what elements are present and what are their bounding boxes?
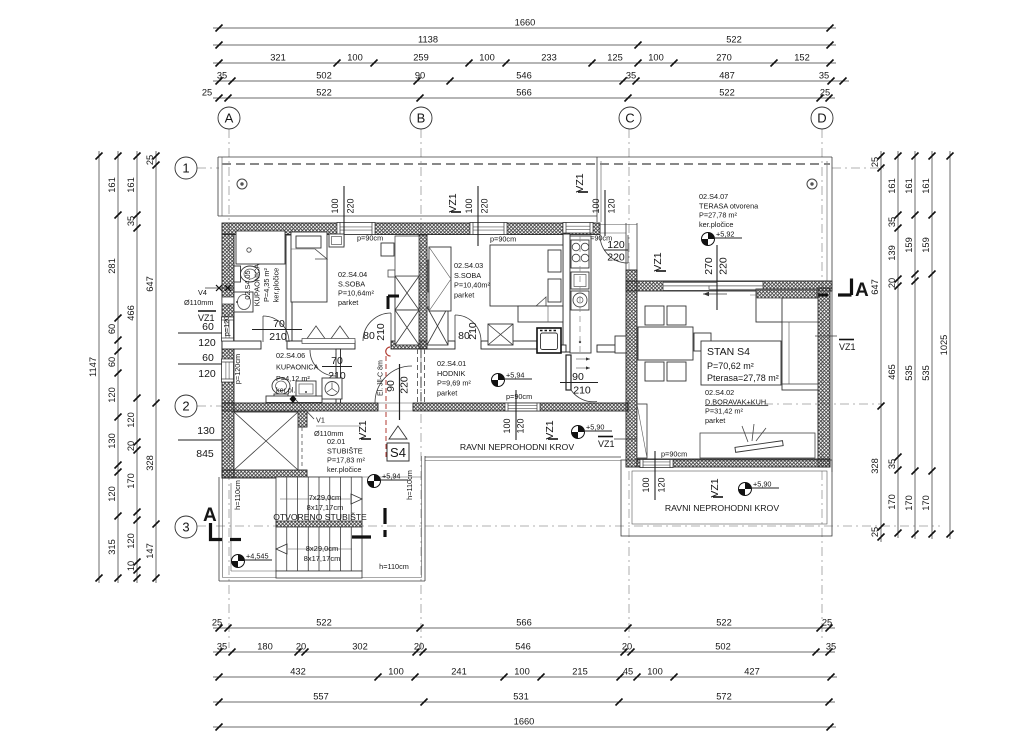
window dimension callout living south window <box>641 451 667 500</box>
svg-text:522: 522 <box>716 618 732 628</box>
bed bedroom04 <box>291 232 327 302</box>
dimension chain top row 1138/522 <box>213 35 836 49</box>
svg-text:125: 125 <box>607 53 623 63</box>
dimension chain bottom row total 1660 <box>213 717 836 731</box>
label V4 diameter west wall <box>184 285 234 307</box>
partition hodnik north b <box>481 341 540 349</box>
door 80/210 bedroom03 <box>455 315 481 342</box>
svg-text:100: 100 <box>641 477 651 492</box>
dimension chain right col 2 <box>887 151 902 538</box>
svg-text:STAN S4: STAN S4 <box>707 346 750 358</box>
dimension chain bottom row 557/531/572 <box>213 692 835 706</box>
svg-text:210: 210 <box>573 385 591 397</box>
svg-text:161: 161 <box>921 178 931 194</box>
window 100/220 bedroom03 <box>470 223 507 235</box>
partition hodnik north a <box>427 341 455 349</box>
grid bubble D <box>811 107 833 129</box>
svg-text:02.S4.02: 02.S4.02 <box>705 388 734 397</box>
svg-text:02.S4.05: 02.S4.05 <box>243 270 252 299</box>
svg-text:35: 35 <box>826 642 836 652</box>
svg-text:522: 522 <box>719 88 735 98</box>
label VZ1 roof left-2 with leader <box>598 437 637 450</box>
svg-text:parket: parket <box>338 298 358 307</box>
svg-text:02.S4.01: 02.S4.01 <box>437 359 466 368</box>
wall terrace south / living north <box>626 281 832 291</box>
sofa L-shaped <box>756 289 818 390</box>
svg-text:p=90cm: p=90cm <box>357 234 383 243</box>
svg-text:557: 557 <box>313 692 329 702</box>
svg-text:120: 120 <box>607 198 617 213</box>
wardrobe marks bedroom04 <box>302 326 355 344</box>
svg-text:Pterasa=27,78 m²: Pterasa=27,78 m² <box>707 373 779 383</box>
wall elevator shaft east jamb <box>298 411 307 427</box>
shaft elevator shaft <box>234 412 298 470</box>
svg-text:25: 25 <box>820 88 830 98</box>
STAN S4 info box <box>701 341 781 385</box>
svg-text:KUPAONICA: KUPAONICA <box>253 264 262 307</box>
svg-text:RAVNI NEPROHODNI KROV: RAVNI NEPROHODNI KROV <box>665 503 779 513</box>
svg-text:566: 566 <box>516 618 532 628</box>
svg-text:70: 70 <box>331 355 343 367</box>
svg-text:VZ1: VZ1 <box>598 439 615 449</box>
S4 stair id box with triangle <box>387 426 409 461</box>
svg-text:90: 90 <box>572 371 584 383</box>
dimension chain bottom row 25/522/566/522/25 <box>212 618 835 632</box>
wardrobe bedroom03 <box>429 247 451 311</box>
svg-text:465: 465 <box>887 364 897 380</box>
label VZ1 kitchen window (rotated) <box>574 173 588 192</box>
svg-text:Ø110mm: Ø110mm <box>184 298 213 307</box>
svg-text:+4,545: +4,545 <box>246 552 269 561</box>
svg-text:+5,92: +5,92 <box>716 230 734 239</box>
dimension chain left col 3 <box>126 151 141 583</box>
svg-text:100: 100 <box>330 198 340 213</box>
shelf bedroom04 <box>381 243 394 256</box>
svg-text:25: 25 <box>822 618 832 628</box>
svg-text:02.S4.07: 02.S4.07 <box>699 192 728 201</box>
room label 02.01 STUBISTE <box>327 437 365 474</box>
wall corner post at C <box>626 270 637 291</box>
svg-text:302: 302 <box>352 642 368 652</box>
svg-text:P=10,64m²: P=10,64m² <box>338 289 374 298</box>
svg-text:90: 90 <box>415 71 425 81</box>
svg-text:VZ1: VZ1 <box>839 342 856 352</box>
svg-text:120: 120 <box>198 368 216 380</box>
terrace outline top strip <box>218 157 832 216</box>
svg-text:1660: 1660 <box>515 18 536 28</box>
wall exterior east (living room) <box>818 288 830 467</box>
dining chairs <box>645 306 711 381</box>
svg-text:100: 100 <box>388 667 404 677</box>
svg-text:35: 35 <box>217 71 227 81</box>
svg-text:233: 233 <box>541 53 557 63</box>
grid axis A dashed line <box>228 129 230 648</box>
label V1 diameter <box>296 400 360 438</box>
svg-text:8x29,0cm: 8x29,0cm <box>306 544 339 553</box>
svg-text:210: 210 <box>467 322 479 340</box>
svg-text:P=17,83 m²: P=17,83 m² <box>327 456 365 465</box>
svg-text:STUBIŠTE: STUBIŠTE <box>327 446 363 455</box>
svg-text:8x17,17cm: 8x17,17cm <box>304 554 341 563</box>
washing machine bathroom06 <box>322 378 342 399</box>
svg-text:3: 3 <box>182 520 189 535</box>
svg-text:A: A <box>855 280 869 301</box>
svg-text:180: 180 <box>257 642 273 652</box>
svg-text:572: 572 <box>716 692 732 702</box>
shoe cabinet hodnik <box>615 336 626 353</box>
partition kitchen south a <box>540 345 566 352</box>
elevation marker +5,90 roof left <box>572 423 613 439</box>
svg-text:ker.pl.: ker.pl. <box>276 386 295 395</box>
shaft vent shaft 4 <box>488 324 513 345</box>
door 80/210 bedroom04 <box>363 313 391 342</box>
open staircase boundary <box>219 456 425 581</box>
svg-text:281: 281 <box>107 258 117 274</box>
svg-text:159: 159 <box>921 237 931 253</box>
dimension chain right col 1 <box>870 151 885 542</box>
svg-text:270: 270 <box>703 257 715 275</box>
grid axis 2 dashed line right <box>745 403 884 405</box>
dimension chain right col 3 <box>904 151 919 539</box>
svg-text:El. Jll-C 8m: El. Jll-C 8m <box>378 360 385 396</box>
svg-text:147: 147 <box>145 543 155 559</box>
grid axis 1 dashed line <box>197 167 219 169</box>
room label 02.S4.06 KUPAONICA <box>276 351 319 395</box>
svg-text:35: 35 <box>887 217 897 227</box>
shaft vent shaft 2 <box>395 310 419 345</box>
nightstand bedroom04 <box>329 234 344 247</box>
wall hodnik south <box>413 403 628 411</box>
vanity ledge bathroom06 <box>266 396 322 403</box>
sliding terrace window 270/220 <box>663 282 763 297</box>
svg-text:V1: V1 <box>316 416 325 425</box>
svg-text:1660: 1660 <box>514 717 535 727</box>
elevator door dashed <box>301 427 303 466</box>
terrace drain symbol left <box>237 179 247 189</box>
room label 02.S4.01 HODNIK <box>437 359 471 397</box>
closet niche beside shaft <box>395 236 419 276</box>
svg-text:1: 1 <box>182 161 189 176</box>
terrace edge insulation dashed band <box>222 163 830 165</box>
svg-text:parket: parket <box>437 388 457 397</box>
toilet bathroom05 <box>234 266 260 282</box>
grid bubble 1 <box>175 157 197 179</box>
svg-text:VZ1: VZ1 <box>447 193 459 212</box>
svg-text:522: 522 <box>316 88 332 98</box>
wall exterior north (A-C) <box>222 223 600 235</box>
label VZ1 east with leader <box>815 336 856 352</box>
grid axis 2 dashed line left <box>197 405 222 407</box>
section jog thick bracket in bedroom wall <box>388 296 399 309</box>
svg-text:161: 161 <box>904 178 914 194</box>
open window leaf at living west wall <box>637 404 647 458</box>
partition kitchen south b <box>597 345 626 352</box>
svg-text:487: 487 <box>719 71 735 81</box>
svg-text:466: 466 <box>126 305 136 321</box>
svg-text:VZ1: VZ1 <box>709 478 721 497</box>
svg-text:100: 100 <box>502 418 512 433</box>
svg-text:1025: 1025 <box>939 335 949 356</box>
svg-text:270: 270 <box>716 53 732 63</box>
shaft vent shaft 1 <box>395 276 419 310</box>
svg-text:120: 120 <box>126 412 136 428</box>
kitchen counter with hob, oven and sink <box>570 236 591 353</box>
svg-text:P=4,12 m²: P=4,12 m² <box>276 374 310 383</box>
svg-text:170: 170 <box>904 495 914 511</box>
svg-text:VZ1: VZ1 <box>574 173 586 192</box>
svg-text:P=27,78 m²: P=27,78 m² <box>699 211 737 220</box>
svg-text:P=4,35 m²: P=4,35 m² <box>262 268 271 302</box>
section mark A right <box>750 279 869 302</box>
svg-text:535: 535 <box>921 365 931 381</box>
shaft vent shaft 3 <box>427 307 448 345</box>
svg-text:210: 210 <box>375 323 387 341</box>
partition bath05/06 south b <box>287 341 355 349</box>
dimension chain top row 35/502/90/546/35/487/35 <box>213 71 849 85</box>
svg-text:45: 45 <box>623 667 633 677</box>
svg-text:1138: 1138 <box>418 35 438 45</box>
window 60/120 bathroom05 <box>222 317 234 341</box>
west wall callouts 130/845 <box>178 425 222 460</box>
svg-text:35: 35 <box>626 71 636 81</box>
room label 02.S4.02 D.BORAVAK+KUH <box>705 388 768 425</box>
svg-text:522: 522 <box>726 35 742 45</box>
svg-text:Ø110mm: Ø110mm <box>314 429 343 438</box>
dimension chain right col 5 total 1025 <box>939 151 954 539</box>
red electrical riser line El.Jll-C 8m <box>378 347 391 458</box>
svg-text:p=90cm: p=90cm <box>506 392 532 401</box>
svg-text:220: 220 <box>718 257 730 275</box>
svg-text:161: 161 <box>887 178 897 194</box>
wall living room west <box>626 291 637 467</box>
svg-text:159: 159 <box>904 237 914 253</box>
svg-text:502: 502 <box>316 71 332 81</box>
grid axis B dashed line <box>420 129 422 648</box>
dining table <box>638 327 693 360</box>
label VZ1 terrace (rotated) <box>652 252 666 271</box>
svg-text:P=9,69 m²: P=9,69 m² <box>437 379 471 388</box>
svg-text:315: 315 <box>107 539 117 555</box>
svg-text:502: 502 <box>715 642 731 652</box>
svg-text:h=110cm: h=110cm <box>233 480 242 510</box>
svg-text:D: D <box>817 111 826 126</box>
grid bubble B <box>410 107 432 129</box>
svg-text:60: 60 <box>202 352 214 364</box>
svg-text:10: 10 <box>126 561 136 571</box>
svg-text:25: 25 <box>212 618 222 628</box>
svg-text:522: 522 <box>316 618 332 628</box>
wall exterior west at elevator <box>222 403 234 478</box>
wall elevator shaft south <box>222 470 307 478</box>
svg-text:60: 60 <box>107 357 117 367</box>
svg-text:647: 647 <box>145 276 155 292</box>
grid axis 3 / section trace dash-dot line <box>197 525 940 527</box>
svg-text:p=90cm: p=90cm <box>661 450 687 459</box>
grid bubble 3 <box>175 516 197 538</box>
svg-text:S4: S4 <box>390 445 406 460</box>
V4 vent sleeve in west wall <box>222 297 234 304</box>
svg-text:120: 120 <box>607 239 625 251</box>
svg-text:S.SOBA: S.SOBA <box>338 279 365 288</box>
svg-text:120: 120 <box>657 477 667 492</box>
svg-text:210: 210 <box>269 331 287 343</box>
grid bubble C <box>619 107 641 129</box>
window dimension callout bedroom03 window <box>464 186 490 246</box>
svg-text:566: 566 <box>516 88 532 98</box>
label VZ1 roof left (rotated) <box>544 420 558 439</box>
svg-text:130: 130 <box>197 425 215 437</box>
svg-text:p=90cm: p=90cm <box>490 235 516 244</box>
washing machine niche <box>537 328 561 353</box>
svg-text:RAVNI NEPROHODNI KROV: RAVNI NEPROHODNI KROV <box>460 442 574 452</box>
dimension chain left col 4 <box>145 151 160 583</box>
entry door 90/220 <box>375 364 412 420</box>
svg-text:+5,90: +5,90 <box>753 480 771 489</box>
room label 02.S4.07 TERASA <box>699 192 759 229</box>
svg-text:+5,94: +5,94 <box>506 371 524 380</box>
partition bath05 south a <box>222 341 261 349</box>
svg-text:130: 130 <box>107 433 117 449</box>
room label 02.S4.04 S.SOBA <box>338 270 374 307</box>
label VZ1 west wall <box>198 311 216 323</box>
entry threshold lines <box>378 403 413 411</box>
svg-text:25: 25 <box>202 88 212 98</box>
svg-text:D.BORAVAK+KUH.: D.BORAVAK+KUH. <box>705 397 768 406</box>
stair labels 7x29 <box>307 493 344 512</box>
svg-text:VZ1: VZ1 <box>652 252 664 271</box>
svg-text:8x17,17cm: 8x17,17cm <box>307 503 344 512</box>
dimension chain top row segments <box>213 53 836 67</box>
partition bathroom05 / bedroom04 <box>286 235 292 341</box>
terrace 02.S4.07 outline right <box>597 157 832 472</box>
svg-text:35: 35 <box>887 459 897 469</box>
svg-text:546: 546 <box>515 642 531 652</box>
svg-text:60: 60 <box>107 324 117 334</box>
svg-text:20: 20 <box>887 278 897 288</box>
svg-text:100: 100 <box>648 53 664 63</box>
elevation marker +5,90 roof right <box>739 480 780 496</box>
entry opening dashed jambs <box>418 347 425 403</box>
elevation marker +5,94 hodnik <box>492 371 533 387</box>
wall interior south of bathroom/stair <box>222 403 378 411</box>
dimension chain bottom row 432/100/241/100/215/45/100/427 <box>213 667 837 681</box>
dimension chain right col 4 <box>921 151 936 539</box>
svg-text:220: 220 <box>607 252 625 264</box>
dimension chain top row total 1660 <box>213 18 836 32</box>
room label 02.S4.05 KUPAONICA (rotated) <box>243 264 281 307</box>
svg-text:2: 2 <box>182 399 189 414</box>
window dimension callout hodnik south window <box>502 390 526 440</box>
svg-text:535: 535 <box>904 365 914 381</box>
west wall small callouts 60/120/60/120 <box>178 321 222 380</box>
svg-text:220: 220 <box>346 198 356 213</box>
svg-text:20: 20 <box>296 642 306 652</box>
svg-text:parket: parket <box>454 290 474 299</box>
svg-text:100: 100 <box>479 53 495 63</box>
svg-text:S.SOBA: S.SOBA <box>454 271 481 280</box>
label VZ1 roof right (rotated) <box>709 478 723 497</box>
svg-text:25: 25 <box>870 527 880 537</box>
svg-text:A: A <box>225 111 234 126</box>
svg-text:120: 120 <box>198 337 216 349</box>
svg-text:120: 120 <box>107 486 117 502</box>
shower tray bathroom05 <box>236 231 285 264</box>
window 100/120 kitchen <box>563 223 593 234</box>
elevation marker +5,92 terrace <box>702 230 743 246</box>
dimension chain left col 2 <box>107 151 122 583</box>
svg-text:139: 139 <box>887 245 897 261</box>
terrace drain symbol right <box>807 179 817 189</box>
svg-text:VZ1: VZ1 <box>357 420 369 439</box>
grid axis D dashed line <box>821 129 823 640</box>
svg-text:220: 220 <box>399 376 411 394</box>
svg-text:P=31,42 m²: P=31,42 m² <box>705 407 743 416</box>
svg-text:259: 259 <box>413 53 429 63</box>
svg-text:25: 25 <box>145 155 155 165</box>
dimension chain bottom row 2 <box>213 642 836 656</box>
svg-text:215: 215 <box>572 667 588 677</box>
label VZ1 north wall A-B (rotated) <box>447 193 461 212</box>
svg-text:V4: V4 <box>198 288 207 297</box>
window 100/120 hodnik south <box>505 403 540 411</box>
label VZ1 stair (rotated) <box>357 420 371 439</box>
door 70/210 bathroom06 <box>310 350 352 382</box>
svg-text:ker.pločice: ker.pločice <box>699 220 733 229</box>
svg-text:531: 531 <box>513 692 529 702</box>
svg-text:120: 120 <box>126 533 136 549</box>
svg-text:20: 20 <box>126 441 136 451</box>
svg-text:P=10,40m²: P=10,40m² <box>454 281 490 290</box>
svg-text:35: 35 <box>126 216 136 226</box>
window 60/120 bathroom06 <box>222 359 234 382</box>
staircase flights <box>276 477 362 578</box>
svg-text:p=120cm: p=120cm <box>233 354 242 384</box>
svg-text:328: 328 <box>145 455 155 471</box>
flat roof area below hodnik (left) <box>425 457 621 461</box>
grid bubble 2 <box>175 395 197 417</box>
svg-text:328: 328 <box>870 458 880 474</box>
svg-text:VZ1: VZ1 <box>544 420 556 439</box>
svg-text:25: 25 <box>870 157 880 167</box>
svg-text:OTVORENO STUBIŠTE: OTVORENO STUBIŠTE <box>273 512 367 522</box>
sideboard with TV living room <box>700 424 815 458</box>
section jog thick marks at stair <box>352 508 385 537</box>
grid bubble A <box>218 107 240 129</box>
window 100/220 bedroom04 <box>337 223 375 235</box>
svg-text:02.S4.04: 02.S4.04 <box>338 270 367 279</box>
stair labels 8x29 <box>304 544 341 563</box>
svg-text:100: 100 <box>464 198 474 213</box>
section mark A bottom left <box>203 505 241 540</box>
svg-text:02.S4.06: 02.S4.06 <box>276 351 305 360</box>
svg-text:170: 170 <box>887 494 897 510</box>
dimension chain top row 25/522/566/522/25 <box>202 88 835 102</box>
svg-text:KUPAONICA: KUPAONICA <box>276 363 319 372</box>
kitchen centre dashed line <box>579 236 581 352</box>
elevation marker +4,545 landing <box>232 552 273 568</box>
svg-text:20: 20 <box>622 642 632 652</box>
window dimension callout terrace sliding door <box>703 245 730 310</box>
svg-text:845: 845 <box>196 448 214 460</box>
elevation marker +5,94 stair <box>368 472 409 488</box>
svg-text:HODNIK: HODNIK <box>437 369 466 378</box>
svg-text:70: 70 <box>273 318 285 330</box>
svg-text:ker.pločice: ker.pločice <box>272 268 281 302</box>
wall central spine wall <box>419 235 427 349</box>
vent duct small <box>428 258 444 292</box>
svg-text:170: 170 <box>126 473 136 489</box>
svg-text:220: 220 <box>480 198 490 213</box>
